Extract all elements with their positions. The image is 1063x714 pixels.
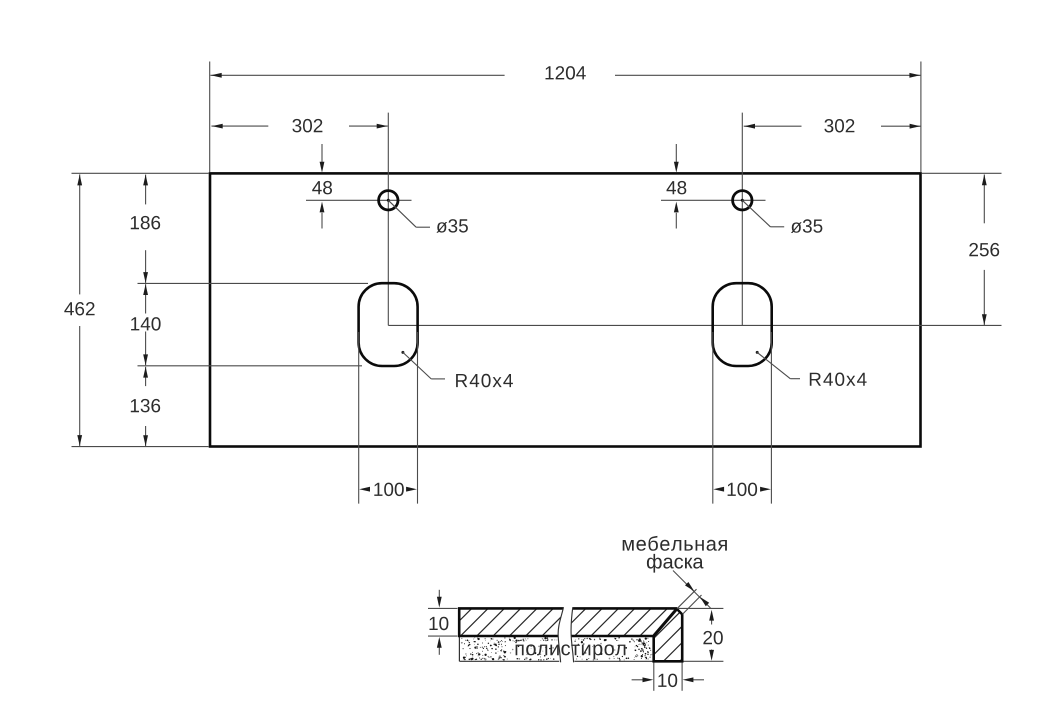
dimension 302 left text: [292, 119, 322, 132]
polystyrene band outline piece 2: [574, 660, 653, 662]
vertical centerline hole/cutout 1: [387, 113, 389, 326]
dimension 136 line: [145, 367, 147, 386]
leader cutout 2: [756, 351, 759, 354]
dimension 140 text: [131, 317, 161, 331]
dimension 48 left text: [312, 181, 332, 195]
label R40x4 cutout 1: [456, 374, 513, 388]
dimension 256 text: [969, 243, 999, 257]
chamfer leader line: [673, 571, 711, 609]
dimension 1204 text: [546, 66, 586, 80]
dimension 462 text: [64, 302, 94, 316]
chamfer callout arrow 2: [700, 597, 709, 606]
break line piece 1: [558, 607, 563, 662]
chamfer edge extension line A: [677, 589, 697, 609]
countertop panel outline: [210, 173, 921, 446]
section ext line top right: [678, 607, 723, 609]
extension line oval1 left side: [358, 332, 360, 504]
hole 1 horizontal centerline: [306, 199, 412, 201]
dimension 1204 line: [210, 74, 504, 76]
extension line right at top edge: [922, 172, 1002, 174]
extension line top-left corner: [209, 62, 211, 173]
dimension 302 right line: [744, 125, 802, 127]
dimension 462 line: [79, 174, 81, 294]
dimension 302 left line: [211, 125, 268, 127]
section dimension 10 left arrows: [438, 590, 440, 598]
polystyrene band outline piece 1: [458, 636, 460, 661]
section slab piece 2 and edge nose outline: [571, 608, 682, 661]
label polystyrene: [516, 644, 626, 659]
section dimension 20 text: [703, 631, 722, 645]
dimension 186 text: [131, 216, 160, 230]
label R40x4 cutout 2: [810, 373, 867, 387]
vertical centerline hole/cutout 2: [741, 113, 743, 326]
dimension 48 right arrows: [675, 144, 677, 162]
faucet hole 1 (ø35): [379, 191, 398, 210]
label furniture chamfer line 2: [647, 554, 704, 573]
extension line left at oval top: [138, 282, 369, 284]
section slab piece 1 outline: [459, 608, 563, 636]
label ø35 hole 2: [791, 219, 823, 233]
label furniture chamfer line 1: [623, 536, 727, 551]
break line piece 2: [571, 607, 574, 662]
polystyrene stipple texture: [474, 637, 475, 638]
section slab hatching piece 1: [378, 600, 888, 670]
postforming miter fold line: [654, 609, 677, 636]
horizontal centerline cutouts: [388, 324, 1001, 326]
chamfer edge extension line B: [683, 595, 702, 614]
section dimension 10 bottom arrows: [632, 679, 644, 681]
dimension 140 line: [145, 284, 147, 313]
extension line oval1 right side: [417, 332, 419, 504]
section dimension 10 bottom text: [658, 674, 677, 688]
dimension 136 text: [131, 399, 160, 413]
extension line left at top edge: [72, 172, 209, 174]
leader hole 1: [388, 200, 416, 227]
dimension 100 right text: [728, 483, 758, 497]
extension line left at oval bottom: [138, 365, 363, 367]
dimension 100 left text: [374, 483, 404, 497]
section slab hatching piece 2: [378, 600, 888, 670]
section dimension 10 left text: [430, 617, 449, 631]
extension line top-right corner: [920, 62, 922, 173]
leader cutout 1: [401, 351, 404, 354]
extension line oval2 left side: [712, 332, 714, 504]
label ø35 hole 1: [436, 219, 468, 233]
dimension 186 line: [145, 175, 147, 205]
hole 2 horizontal centerline: [661, 199, 766, 201]
dimension 256 line: [983, 175, 985, 224]
faucet hole 2 (ø35): [733, 191, 752, 210]
section ext lines nose: [653, 663, 655, 691]
section ext lines left: [428, 607, 458, 609]
section ext line bottom right: [684, 660, 724, 662]
dimension 100 left arrows: [359, 487, 370, 492]
leader hole 2: [742, 200, 770, 227]
extension line oval2 right side: [770, 332, 772, 504]
section dimension 20 line: [711, 619, 713, 625]
chamfer callout arrow 1: [685, 582, 694, 591]
dimension 302 right text: [824, 119, 854, 133]
dimension 48 right text: [667, 181, 687, 195]
extension line left at bottom edge: [72, 446, 209, 448]
oval cutout 1 (R40x4): [359, 283, 418, 366]
dimension 100 right arrows: [713, 487, 724, 492]
oval cutout 2 (R40x4): [713, 283, 772, 366]
dimension 48 left arrows: [321, 144, 323, 162]
